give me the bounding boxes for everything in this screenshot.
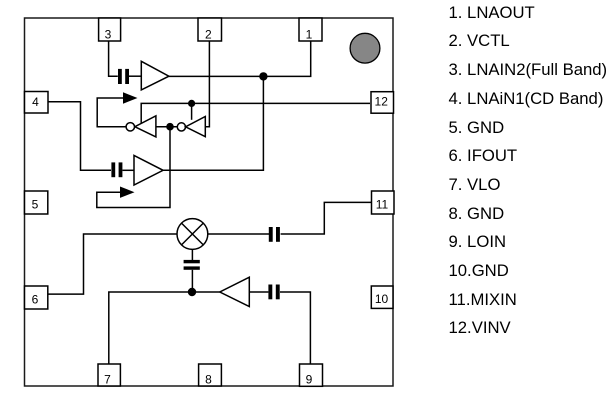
wire node B feedback loop 2 with arrowhead — [97, 127, 170, 208]
wire node D to buffer U3 — [192, 291, 220, 293]
arrowhead into A3 input — [120, 187, 135, 198]
svg-text:9: 9 — [306, 373, 313, 387]
svg-text:10: 10 — [375, 292, 389, 306]
die marker dot (gray circle) — [350, 33, 380, 63]
buffer amplifier U3 (LO buffer) — [220, 277, 250, 306]
wire C5 to node D — [191, 270, 193, 292]
pin 11 box — [372, 191, 395, 214]
pin 2 box — [198, 18, 222, 42]
wire node D to pin7 — [109, 292, 192, 364]
wire pin6 to mixer input — [48, 234, 178, 294]
amplifier A1 (LNA full band) — [141, 61, 169, 90]
svg-text:5: 5 — [32, 198, 39, 212]
wire U3 to C6 — [249, 291, 268, 293]
wire control line pin12 — [141, 103, 370, 123]
IC package outline — [25, 18, 394, 386]
svg-text:8: 8 — [205, 372, 212, 386]
wire A1 output to pin1 — [169, 41, 311, 76]
pin 7 box — [98, 364, 120, 386]
pin 6 box — [25, 286, 48, 309]
inverter U2 — [186, 117, 206, 137]
capacitor C6 — [268, 285, 279, 300]
wire pin2 to U2 input — [205, 41, 209, 127]
wire mixer output to C4 — [208, 233, 269, 235]
junction node C — [188, 100, 195, 107]
capacitor C5 — [184, 260, 200, 270]
pin 5 box — [25, 191, 48, 214]
inverter U1 — [135, 116, 156, 137]
wire C1 to amp A1 — [129, 75, 142, 77]
capacitor C3 — [111, 162, 122, 177]
pin 8 box — [199, 364, 222, 386]
wire mixer bottom to C5 — [191, 249, 193, 260]
capacitor C1 — [118, 69, 129, 84]
wire U1 input to node B — [156, 126, 177, 128]
arrowhead into A1 input — [123, 92, 138, 103]
svg-text:3: 3 — [105, 28, 112, 42]
mixer X1 — [177, 219, 208, 250]
svg-text:11: 11 — [376, 198, 389, 212]
wire C4 to pin11 — [281, 202, 371, 234]
pin 4 box — [25, 92, 49, 114]
wire pin4 to C3 — [48, 102, 112, 171]
wire node A down to A3 output — [163, 76, 263, 170]
pin 10 box — [371, 286, 393, 308]
pin 1 box — [299, 18, 322, 42]
amplifier A3 (LNA CD band) — [134, 155, 163, 185]
svg-text:7: 7 — [104, 372, 111, 386]
wire U1 bubble feedback loop with arrowhead — [97, 98, 126, 127]
wire C6 to pin9 — [280, 292, 310, 364]
inverter U1 bubble — [126, 123, 134, 131]
pin name list — [449, 0, 608, 343]
capacitor C4 — [269, 227, 280, 242]
junction node D — [188, 288, 196, 296]
junction node B — [166, 123, 174, 131]
wire C3 to A3 — [123, 169, 135, 171]
pin 3 box — [99, 18, 121, 42]
svg-text:6: 6 — [32, 293, 39, 307]
inverter U2 bubble — [177, 123, 185, 131]
svg-text:12: 12 — [375, 95, 389, 109]
wire node C to U2 top — [191, 103, 193, 119]
svg-text:4: 4 — [32, 95, 39, 109]
svg-text:2: 2 — [205, 28, 212, 42]
junction node A — [259, 72, 267, 80]
pin 9 box — [300, 364, 323, 387]
wire pin3 to C1 — [109, 41, 118, 76]
svg-text:1: 1 — [306, 28, 313, 42]
pin 12 box — [371, 92, 394, 114]
